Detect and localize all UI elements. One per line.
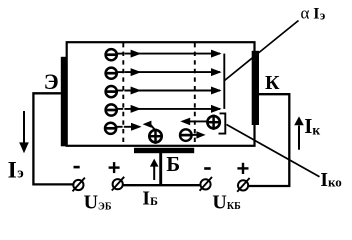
- svg-text:Iэ: Iэ: [313, 5, 325, 22]
- plus sign (U_EB): [109, 162, 120, 173]
- dashed junction line 1 (emitter-base): [122, 43, 124, 145]
- collector contact bar К: [252, 51, 259, 125]
- minus sign (U_EB): [74, 166, 80, 169]
- Ik current arrow: [294, 116, 304, 149]
- terminal T1: [73, 178, 85, 192]
- minus sign (U_KB): [204, 167, 211, 170]
- alpha-Ie leader line: [225, 21, 299, 81]
- terminal T4: [237, 178, 249, 192]
- base contact bar Б: [134, 148, 194, 153]
- electron row 5 (recombining): [105, 123, 142, 134]
- dashed junction line 2 (base-collector): [194, 43, 196, 145]
- Ie current arrow: [19, 111, 29, 153]
- electron row 2: [106, 68, 222, 79]
- hole H2 (thermal, collector leakage): [180, 115, 221, 130]
- hole H1 (recombination, base): [143, 121, 163, 144]
- svg-text:α: α: [301, 4, 310, 23]
- collector wire: [249, 94, 289, 186]
- emitter wire: [33, 93, 72, 184]
- emitter contact bar Э: [61, 57, 67, 147]
- electron E6 (bottom right, to collector): [180, 129, 206, 141]
- electron row 4: [106, 104, 222, 115]
- plus sign (U_KB): [237, 163, 248, 174]
- svg-text:К: К: [265, 72, 280, 94]
- base bottom wire: [124, 184, 200, 186]
- svg-text:Э: Э: [44, 69, 59, 94]
- svg-text:Б: Б: [166, 152, 180, 176]
- base vertical wire: [159, 153, 162, 186]
- collected-electrons bracket line: [223, 54, 225, 109]
- Iко leader line: [227, 125, 320, 177]
- electron row 3: [106, 86, 222, 97]
- bracket for Iко: [219, 113, 226, 133]
- Ib current arrow: [150, 159, 159, 180]
- transistor body rectangle: [67, 42, 255, 146]
- terminal T2: [112, 177, 124, 191]
- terminal T3: [200, 177, 212, 191]
- electron row 1: [106, 49, 222, 60]
